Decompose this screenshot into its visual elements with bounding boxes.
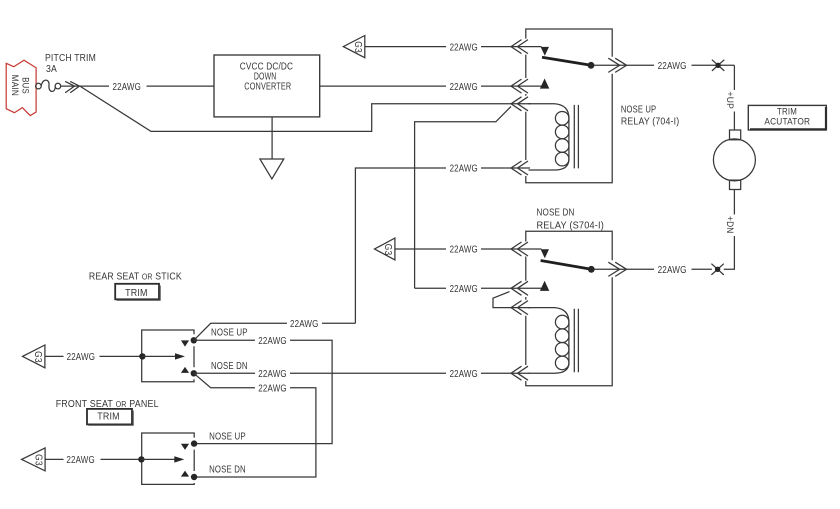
node label NOSE UP (rear) bbox=[211, 328, 248, 339]
svg-text:22AWG: 22AWG bbox=[66, 455, 95, 466]
relay NOSE UP NC fixed contact (down triangle) bbox=[541, 47, 549, 56]
relay NOSE DN entry chevron NO bbox=[511, 281, 528, 295]
trim actuator label text bbox=[764, 107, 810, 127]
svg-text:22AWG: 22AWG bbox=[113, 82, 142, 93]
relay U2 NOSE DN box bbox=[526, 231, 612, 386]
wire power branch to relay coil top and nose-dn NO contact bbox=[415, 107, 545, 289]
wire label 22AWG bbox=[258, 336, 287, 347]
dc/dc converter label bbox=[240, 61, 294, 92]
wire 22AWG ground G3 to nose-up relay NC contact bbox=[365, 46, 542, 48]
wire label 22AWG bbox=[450, 245, 478, 256]
wire label 22AWG bbox=[658, 265, 687, 276]
svg-text:BUS: BUS bbox=[21, 77, 31, 94]
relay NOSE UP label bbox=[621, 105, 679, 128]
relay NOSE UP entry chevron coil top bbox=[511, 97, 528, 111]
front seat switch header bbox=[56, 399, 159, 410]
svg-text:G3: G3 bbox=[32, 454, 44, 466]
relay NOSE DN coil bbox=[528, 308, 569, 374]
wire label 22AWG bbox=[66, 455, 95, 466]
svg-text:NOSE UP: NOSE UP bbox=[209, 431, 246, 442]
fuse label PITCH TRIM 3A bbox=[45, 53, 96, 75]
wire label 22AWG bbox=[450, 284, 478, 295]
wire 22AWG rear nose-dn to front nose-dn bbox=[194, 373, 316, 477]
node label NOSE DN (rear) bbox=[211, 361, 248, 372]
relay NOSE DN entry chevron coil top bbox=[511, 301, 528, 315]
svg-text:TRIM: TRIM bbox=[777, 107, 797, 117]
relay NOSE DN entry chevron NC bbox=[511, 242, 528, 256]
wire label 22AWG bbox=[113, 82, 142, 93]
svg-text:22AWG: 22AWG bbox=[450, 284, 478, 295]
switch S2 FRONT box bbox=[142, 433, 195, 484]
wire 22AWG rear nose-dn to nose-dn relay coil bbox=[194, 372, 530, 374]
wire label 22AWG bbox=[290, 319, 319, 330]
switch S1 NOSE UP contact (triangle and dot) bbox=[181, 337, 197, 347]
wire 22AWG converter output to nose-up relay NO contact bbox=[320, 85, 545, 87]
wire label 22AWG bbox=[450, 42, 478, 53]
wire labels 22AWG (nose dn run) bbox=[258, 369, 478, 380]
relay NOSE UP core (double line) bbox=[574, 105, 578, 168]
relay NOSE DN NC fixed contact (down triangle) bbox=[541, 249, 549, 258]
svg-text:G3: G3 bbox=[382, 244, 394, 256]
relay NOSE DN armature (thick) with pivot dot bbox=[541, 261, 595, 273]
svg-text:22AWG: 22AWG bbox=[258, 369, 287, 380]
wire 22AWG ground to front switch common bbox=[45, 458, 141, 460]
svg-text:22AWG: 22AWG bbox=[450, 42, 478, 53]
switch S1 REAR box bbox=[142, 330, 194, 382]
svg-text:CONVERTER: CONVERTER bbox=[244, 81, 291, 92]
svg-text:NOSE DN: NOSE DN bbox=[537, 208, 575, 219]
svg-text:22AWG: 22AWG bbox=[290, 319, 319, 330]
wire label 22AWG bbox=[258, 383, 287, 394]
wire 22AWG relay NOSE UP output to splice bbox=[692, 64, 735, 66]
wire label 22AWG bbox=[450, 82, 478, 93]
wire label 22AWG bbox=[658, 61, 687, 72]
svg-text:REAR SEAT OR STICK: REAR SEAT OR STICK bbox=[89, 271, 182, 282]
svg-text:22AWG: 22AWG bbox=[450, 82, 478, 93]
wire label 22AWG bbox=[67, 352, 96, 363]
wire 22AWG ground G3 to nose-dn relay NC contact bbox=[395, 248, 542, 250]
svg-text:22AWG: 22AWG bbox=[450, 369, 478, 380]
wire 22AWG ground to rear switch common bbox=[45, 355, 142, 357]
relay NOSE DN entry chevron coil bottom bbox=[511, 366, 528, 380]
relay NOSE UP armature (thick) with pivot dot bbox=[542, 57, 594, 68]
wire 22AWG rear nose-up to front nose-up bbox=[194, 340, 332, 443]
wire +UP down to actuator bbox=[733, 65, 735, 130]
motor M1 trim actuator bbox=[713, 130, 755, 190]
node label +UP (rotated) bbox=[725, 92, 735, 110]
relay NOSE DN NO fixed contact (up triangle) bbox=[540, 281, 549, 291]
switch S2 NOSE DN contact (triangle and dot) bbox=[181, 471, 197, 481]
front trim label box (double border) bbox=[87, 409, 133, 426]
relay NOSE DN exit wire and chevron bbox=[594, 262, 654, 276]
switch S1 NOSE DN contact (triangle and dot) bbox=[181, 367, 197, 377]
svg-text:TRIM: TRIM bbox=[125, 287, 148, 299]
svg-text:NOSE DN: NOSE DN bbox=[211, 361, 248, 372]
svg-text:PITCH TRIM: PITCH TRIM bbox=[45, 53, 96, 64]
node label NOSE DN (front) bbox=[209, 465, 246, 476]
wire 22AWG nose-up coil bottom feed from switches bbox=[355, 168, 530, 323]
svg-text:RELAY (704-I): RELAY (704-I) bbox=[621, 116, 679, 127]
svg-text:22AWG: 22AWG bbox=[450, 245, 478, 256]
svg-text:22AWG: 22AWG bbox=[67, 352, 96, 363]
node label +DN (rotated) bbox=[725, 216, 735, 234]
svg-text:TRIM: TRIM bbox=[97, 410, 120, 422]
relay NOSE UP coil bbox=[528, 104, 569, 170]
wire label 22AWG bbox=[450, 164, 478, 175]
ground (converter) bbox=[260, 117, 284, 179]
relay NOSE DN core (double line) bbox=[574, 309, 578, 373]
fuse F1 3A (circles and wavy element) bbox=[36, 80, 61, 91]
svg-text:NOSE UP: NOSE UP bbox=[211, 328, 248, 339]
svg-text:22AWG: 22AWG bbox=[450, 164, 478, 175]
switch S2 common pole (dot and arrow) bbox=[138, 456, 184, 462]
dc/dc converter U1 box bbox=[214, 55, 320, 117]
wire bus diagonal feed to relay coil supply bbox=[81, 87, 532, 132]
connector chevron (double arrow right) bbox=[65, 81, 79, 92]
svg-text:NOSE DN: NOSE DN bbox=[209, 465, 246, 476]
wire jog NO contact to coil top (nose dn) bbox=[493, 292, 531, 308]
trim actuator label box (double border) bbox=[748, 105, 826, 130]
main bus label MAIN BUS (rotated) bbox=[10, 75, 31, 96]
relay NOSE UP NO fixed contact (up triangle) bbox=[540, 79, 549, 89]
ground G3 (front switch) bbox=[22, 448, 45, 471]
wire +DN from actuator down bbox=[724, 190, 735, 270]
wire fuse to connector bbox=[61, 85, 109, 87]
relay NOSE UP entry chevron NC bbox=[511, 40, 528, 54]
switch S1 common pole (dot and arrow) bbox=[139, 353, 185, 359]
svg-text:3A: 3A bbox=[46, 64, 57, 75]
rear seat switch header bbox=[89, 271, 182, 282]
ground G3 (top, near converter) bbox=[343, 36, 365, 58]
svg-text:NOSE UP: NOSE UP bbox=[621, 105, 656, 116]
svg-text:+DN: +DN bbox=[725, 216, 735, 234]
rear trim label box (double border) bbox=[115, 284, 160, 301]
splice (X) on +DN wire bbox=[711, 264, 723, 275]
wire 22AWG bus feed to converter bbox=[147, 85, 215, 87]
relay U1 NOSE UP box bbox=[526, 29, 612, 183]
svg-text:RELAY (S704-I): RELAY (S704-I) bbox=[537, 220, 605, 231]
svg-text:G3: G3 bbox=[32, 351, 44, 363]
relay U2 NOSE DN label bbox=[537, 208, 605, 232]
svg-text:22AWG: 22AWG bbox=[658, 61, 687, 72]
wire 22AWG nose-dn relay output to splice bbox=[692, 268, 712, 270]
relay NOSE UP exit wire and chevron bbox=[594, 58, 654, 72]
splice (X) on +UP wire bbox=[712, 60, 724, 71]
node label NOSE UP (front) bbox=[209, 431, 246, 442]
switch S2 NOSE UP contact (triangle and dot) bbox=[181, 440, 197, 450]
svg-text:MAIN: MAIN bbox=[10, 75, 20, 96]
ground G3 (middle, nose-dn) bbox=[375, 238, 395, 260]
ground G3 (rear switch) bbox=[23, 345, 45, 368]
svg-text:22AWG: 22AWG bbox=[658, 265, 687, 276]
svg-text:22AWG: 22AWG bbox=[258, 336, 287, 347]
svg-text:G3: G3 bbox=[352, 41, 364, 53]
relay NOSE UP entry chevron coil bottom bbox=[511, 161, 528, 175]
wire 22AWG rear nose-up to relay coil (up riser) bbox=[194, 323, 356, 340]
main bus (red torn bar) bbox=[6, 60, 36, 115]
svg-text:22AWG: 22AWG bbox=[258, 383, 287, 394]
svg-text:+UP: +UP bbox=[725, 92, 735, 110]
svg-text:ACUTATOR: ACUTATOR bbox=[764, 117, 810, 127]
relay NOSE UP entry chevron NO bbox=[511, 79, 528, 93]
